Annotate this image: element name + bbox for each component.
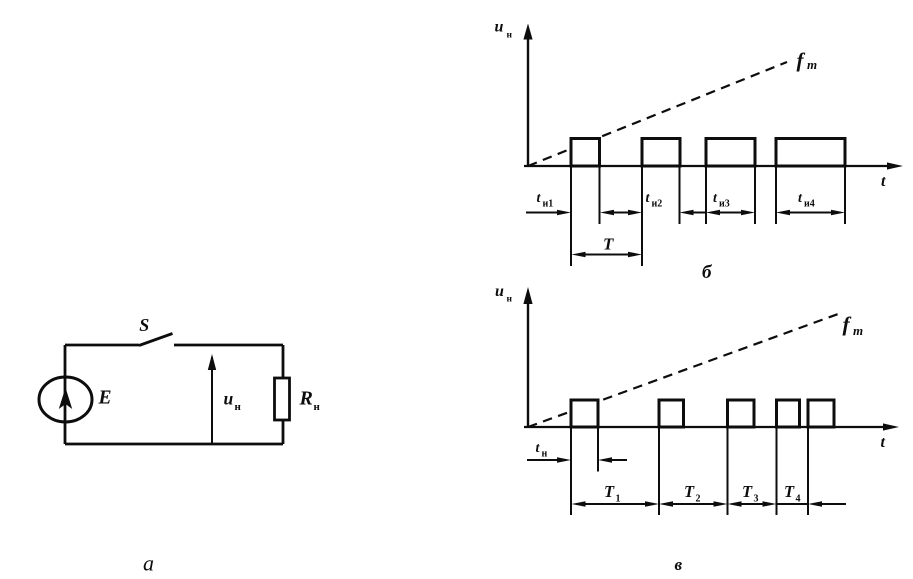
svg-text:T: T (742, 482, 753, 501)
svg-text:н: н (235, 401, 242, 413)
svg-text:E: E (98, 388, 112, 409)
svg-text:н: н (542, 449, 548, 460)
svg-text:u: u (224, 389, 234, 409)
svg-text:3: 3 (754, 494, 759, 505)
svg-text:T: T (784, 482, 795, 501)
svg-text:н: н (507, 31, 513, 41)
svg-text:н: н (314, 401, 321, 413)
svg-text:u: u (495, 283, 504, 300)
svg-text:б: б (702, 262, 713, 283)
svg-text:R: R (299, 388, 313, 410)
svg-text:t: t (881, 434, 886, 451)
svg-text:T: T (604, 482, 615, 501)
svg-text:u: u (495, 19, 504, 36)
svg-text:1: 1 (616, 494, 621, 505)
svg-text:m: m (807, 57, 817, 72)
svg-text:2: 2 (696, 494, 701, 505)
svg-text:T: T (603, 235, 614, 254)
svg-text:и2: и2 (652, 199, 663, 210)
svg-text:н: н (507, 295, 513, 305)
svg-text:и3: и3 (719, 199, 730, 210)
svg-text:S: S (139, 315, 149, 335)
svg-text:и4: и4 (804, 199, 815, 210)
svg-text:в: в (675, 555, 683, 574)
svg-text:4: 4 (796, 494, 801, 505)
svg-text:t: t (881, 173, 886, 190)
svg-text:а: а (143, 551, 154, 576)
svg-text:и1: и1 (543, 199, 554, 210)
svg-text:T: T (684, 482, 695, 501)
svg-text:m: m (853, 323, 863, 338)
